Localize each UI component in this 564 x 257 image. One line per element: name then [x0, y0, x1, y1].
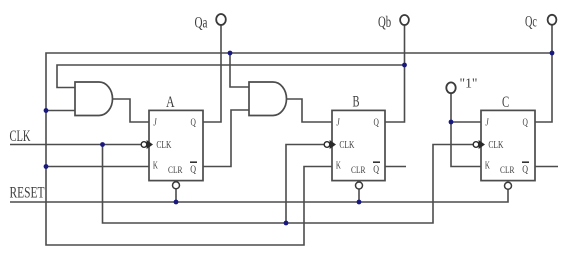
svg-text:Qb: Qb — [378, 14, 391, 31]
svg-text:Q: Q — [374, 117, 380, 128]
svg-text:CLK: CLK — [339, 140, 354, 151]
svg-text:Q: Q — [191, 117, 197, 128]
svg-text:B: B — [353, 94, 360, 111]
svg-text:Q: Q — [373, 163, 379, 175]
svg-text:RESET: RESET — [10, 185, 45, 202]
svg-text:C: C — [502, 94, 509, 111]
svg-text:K: K — [336, 160, 341, 171]
svg-text:Qc: Qc — [525, 14, 537, 31]
svg-text:Q: Q — [522, 163, 528, 175]
svg-text:Qa: Qa — [195, 14, 208, 31]
svg-text:K: K — [153, 160, 158, 171]
svg-text:CLR: CLR — [168, 165, 183, 175]
svg-text:A: A — [166, 94, 175, 111]
svg-text:CLK: CLK — [488, 140, 503, 151]
svg-text:Q: Q — [523, 117, 529, 128]
svg-text:CLK: CLK — [10, 128, 31, 145]
svg-text:"1": "1" — [460, 76, 478, 91]
svg-text:K: K — [485, 160, 490, 171]
svg-text:CLR: CLR — [351, 165, 366, 175]
svg-text:CLK: CLK — [156, 140, 171, 151]
svg-text:CLR: CLR — [500, 165, 515, 175]
svg-text:Q: Q — [190, 163, 196, 175]
